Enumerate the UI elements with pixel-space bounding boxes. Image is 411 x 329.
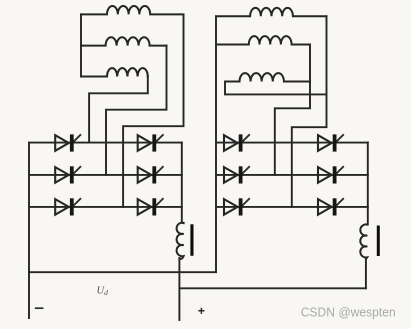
wire: L5 right end down, left, down into row 2 bbox=[275, 45, 310, 175]
wire: row 2 of left bridge bbox=[29, 174, 182, 176]
transformer T1 winding (left) bbox=[177, 223, 184, 259]
wire: row 2 of right bridge bbox=[216, 174, 368, 176]
wire: row 1 of left bridge bbox=[29, 142, 182, 144]
svg-text:CSDN @wespten: CSDN @wespten bbox=[301, 306, 396, 320]
inductor L1 (left top) bbox=[81, 6, 184, 14]
core bar of transformer T2 bbox=[377, 226, 380, 257]
wire: row 3 of left bridge bbox=[29, 206, 182, 208]
label: minus terminal bbox=[35, 307, 44, 309]
thyristor V12 (right bridge row 3 right) bbox=[318, 198, 344, 215]
wire: L1 right end stepping down-left into row 3 bbox=[123, 14, 183, 207]
wire: left DC minus bus bbox=[28, 143, 30, 318]
thyristor V4 (left bridge row 1 right) bbox=[138, 134, 164, 151]
inductor L4 (right top) bbox=[216, 8, 327, 16]
inductor L6 (right bottom) bbox=[240, 73, 311, 81]
inductor L2 (left middle) bbox=[81, 37, 167, 45]
thyristor V1 (left bridge row 1 left) bbox=[55, 134, 81, 151]
wire: common vertical joining left ends of L1 L2 L3 bbox=[80, 14, 82, 76]
wire: bottom bus of left bridge joining right bridge left bus bbox=[29, 271, 216, 273]
thyristor V6 (left bridge row 3 right) bbox=[138, 198, 164, 215]
inductor L3 (left bottom) bbox=[81, 68, 148, 76]
wire: plus lead dropping from T1 winding bbox=[178, 258, 180, 320]
thyristor V3 (left bridge row 3 left) bbox=[55, 198, 81, 215]
wire: left bus of right bridge (carries L4 L5 left ends) bbox=[215, 16, 217, 272]
thyristor V7 (right bridge row 1 left) bbox=[224, 134, 250, 151]
wire: row 3 of right bridge bbox=[216, 206, 368, 208]
wire: L6 left end down then right joining L4 drop bbox=[225, 82, 327, 95]
wire: L2 right end stepping down-left into row 2 bbox=[106, 46, 167, 175]
wire: L4 right end down, left, down into row 3 bbox=[292, 16, 327, 207]
core bar of transformer T1 bbox=[190, 224, 193, 256]
thyristor V8 (right bridge row 2 left) bbox=[224, 166, 250, 183]
wire: right bus of left bridge down to transformer bbox=[182, 143, 184, 224]
thyristor V11 (right bridge row 2 right) bbox=[318, 166, 344, 183]
inductor L5 (right middle) bbox=[216, 36, 310, 44]
transformer T2 winding (right) bbox=[360, 224, 367, 258]
wire: L3 right end stepping down-left into row 1 bbox=[89, 77, 148, 143]
wire: row 1 of right bridge bbox=[216, 142, 368, 144]
wire: right bus of right bridge down to transformer bbox=[367, 143, 369, 225]
label: plus terminal bbox=[198, 308, 204, 314]
thyristor V2 (left bridge row 2 left) bbox=[55, 166, 81, 183]
thyristor V10 (right bridge row 1 right) bbox=[318, 134, 344, 151]
wire: plus rail joining both transformers bbox=[179, 287, 366, 289]
wire: T2 bottom lead down to plus rail bbox=[365, 258, 367, 289]
thyristor V9 (right bridge row 3 left) bbox=[224, 198, 250, 215]
svg-text:Ud: Ud bbox=[97, 286, 109, 298]
thyristor V5 (left bridge row 2 right) bbox=[138, 166, 164, 183]
